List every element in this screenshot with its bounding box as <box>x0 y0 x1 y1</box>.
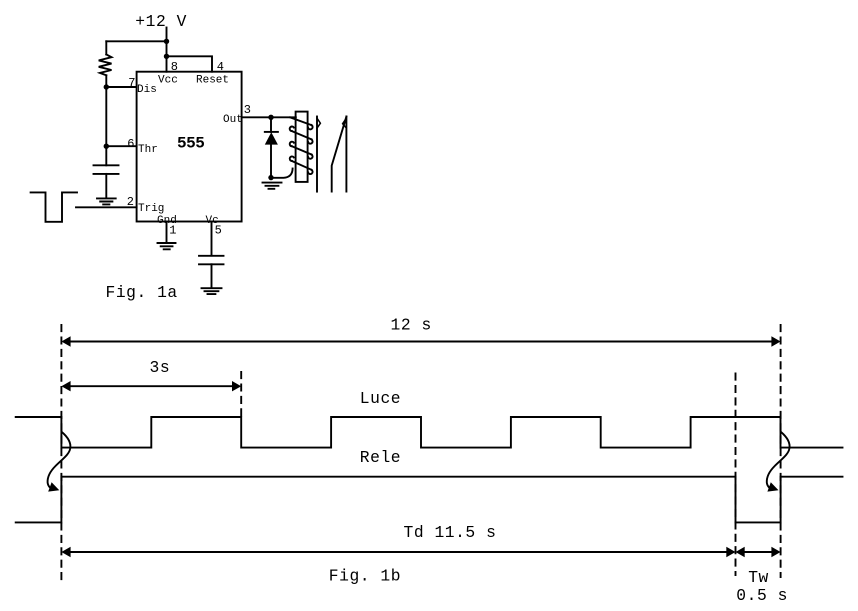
svg-text:Fig. 1a: Fig. 1a <box>106 283 178 302</box>
svg-text:6: 6 <box>127 137 134 151</box>
svg-text:+12 V: +12 V <box>135 12 187 31</box>
svg-text:Vcc: Vcc <box>158 74 178 86</box>
svg-text:4: 4 <box>217 60 224 74</box>
svg-text:5: 5 <box>215 224 222 238</box>
svg-text:0.5 s: 0.5 s <box>736 586 788 605</box>
svg-text:Fig. 1b: Fig. 1b <box>329 566 401 585</box>
svg-text:Tw: Tw <box>748 568 769 587</box>
svg-text:Luce: Luce <box>360 389 401 408</box>
svg-text:Trig: Trig <box>138 203 164 215</box>
svg-text:3s: 3s <box>150 358 171 377</box>
svg-text:2: 2 <box>127 195 134 209</box>
svg-text:3: 3 <box>244 103 251 117</box>
svg-text:Dis: Dis <box>137 84 157 96</box>
svg-text:Reset: Reset <box>196 74 229 86</box>
svg-text:Out: Out <box>223 114 243 126</box>
svg-text:1: 1 <box>169 224 176 238</box>
svg-text:8: 8 <box>171 60 178 74</box>
svg-text:Thr: Thr <box>138 144 158 156</box>
svg-text:12 s: 12 s <box>391 315 432 334</box>
svg-text:Td 11.5 s: Td 11.5 s <box>404 523 497 542</box>
svg-text:7: 7 <box>128 76 135 90</box>
svg-text:555: 555 <box>177 135 204 153</box>
svg-text:Rele: Rele <box>360 448 401 467</box>
